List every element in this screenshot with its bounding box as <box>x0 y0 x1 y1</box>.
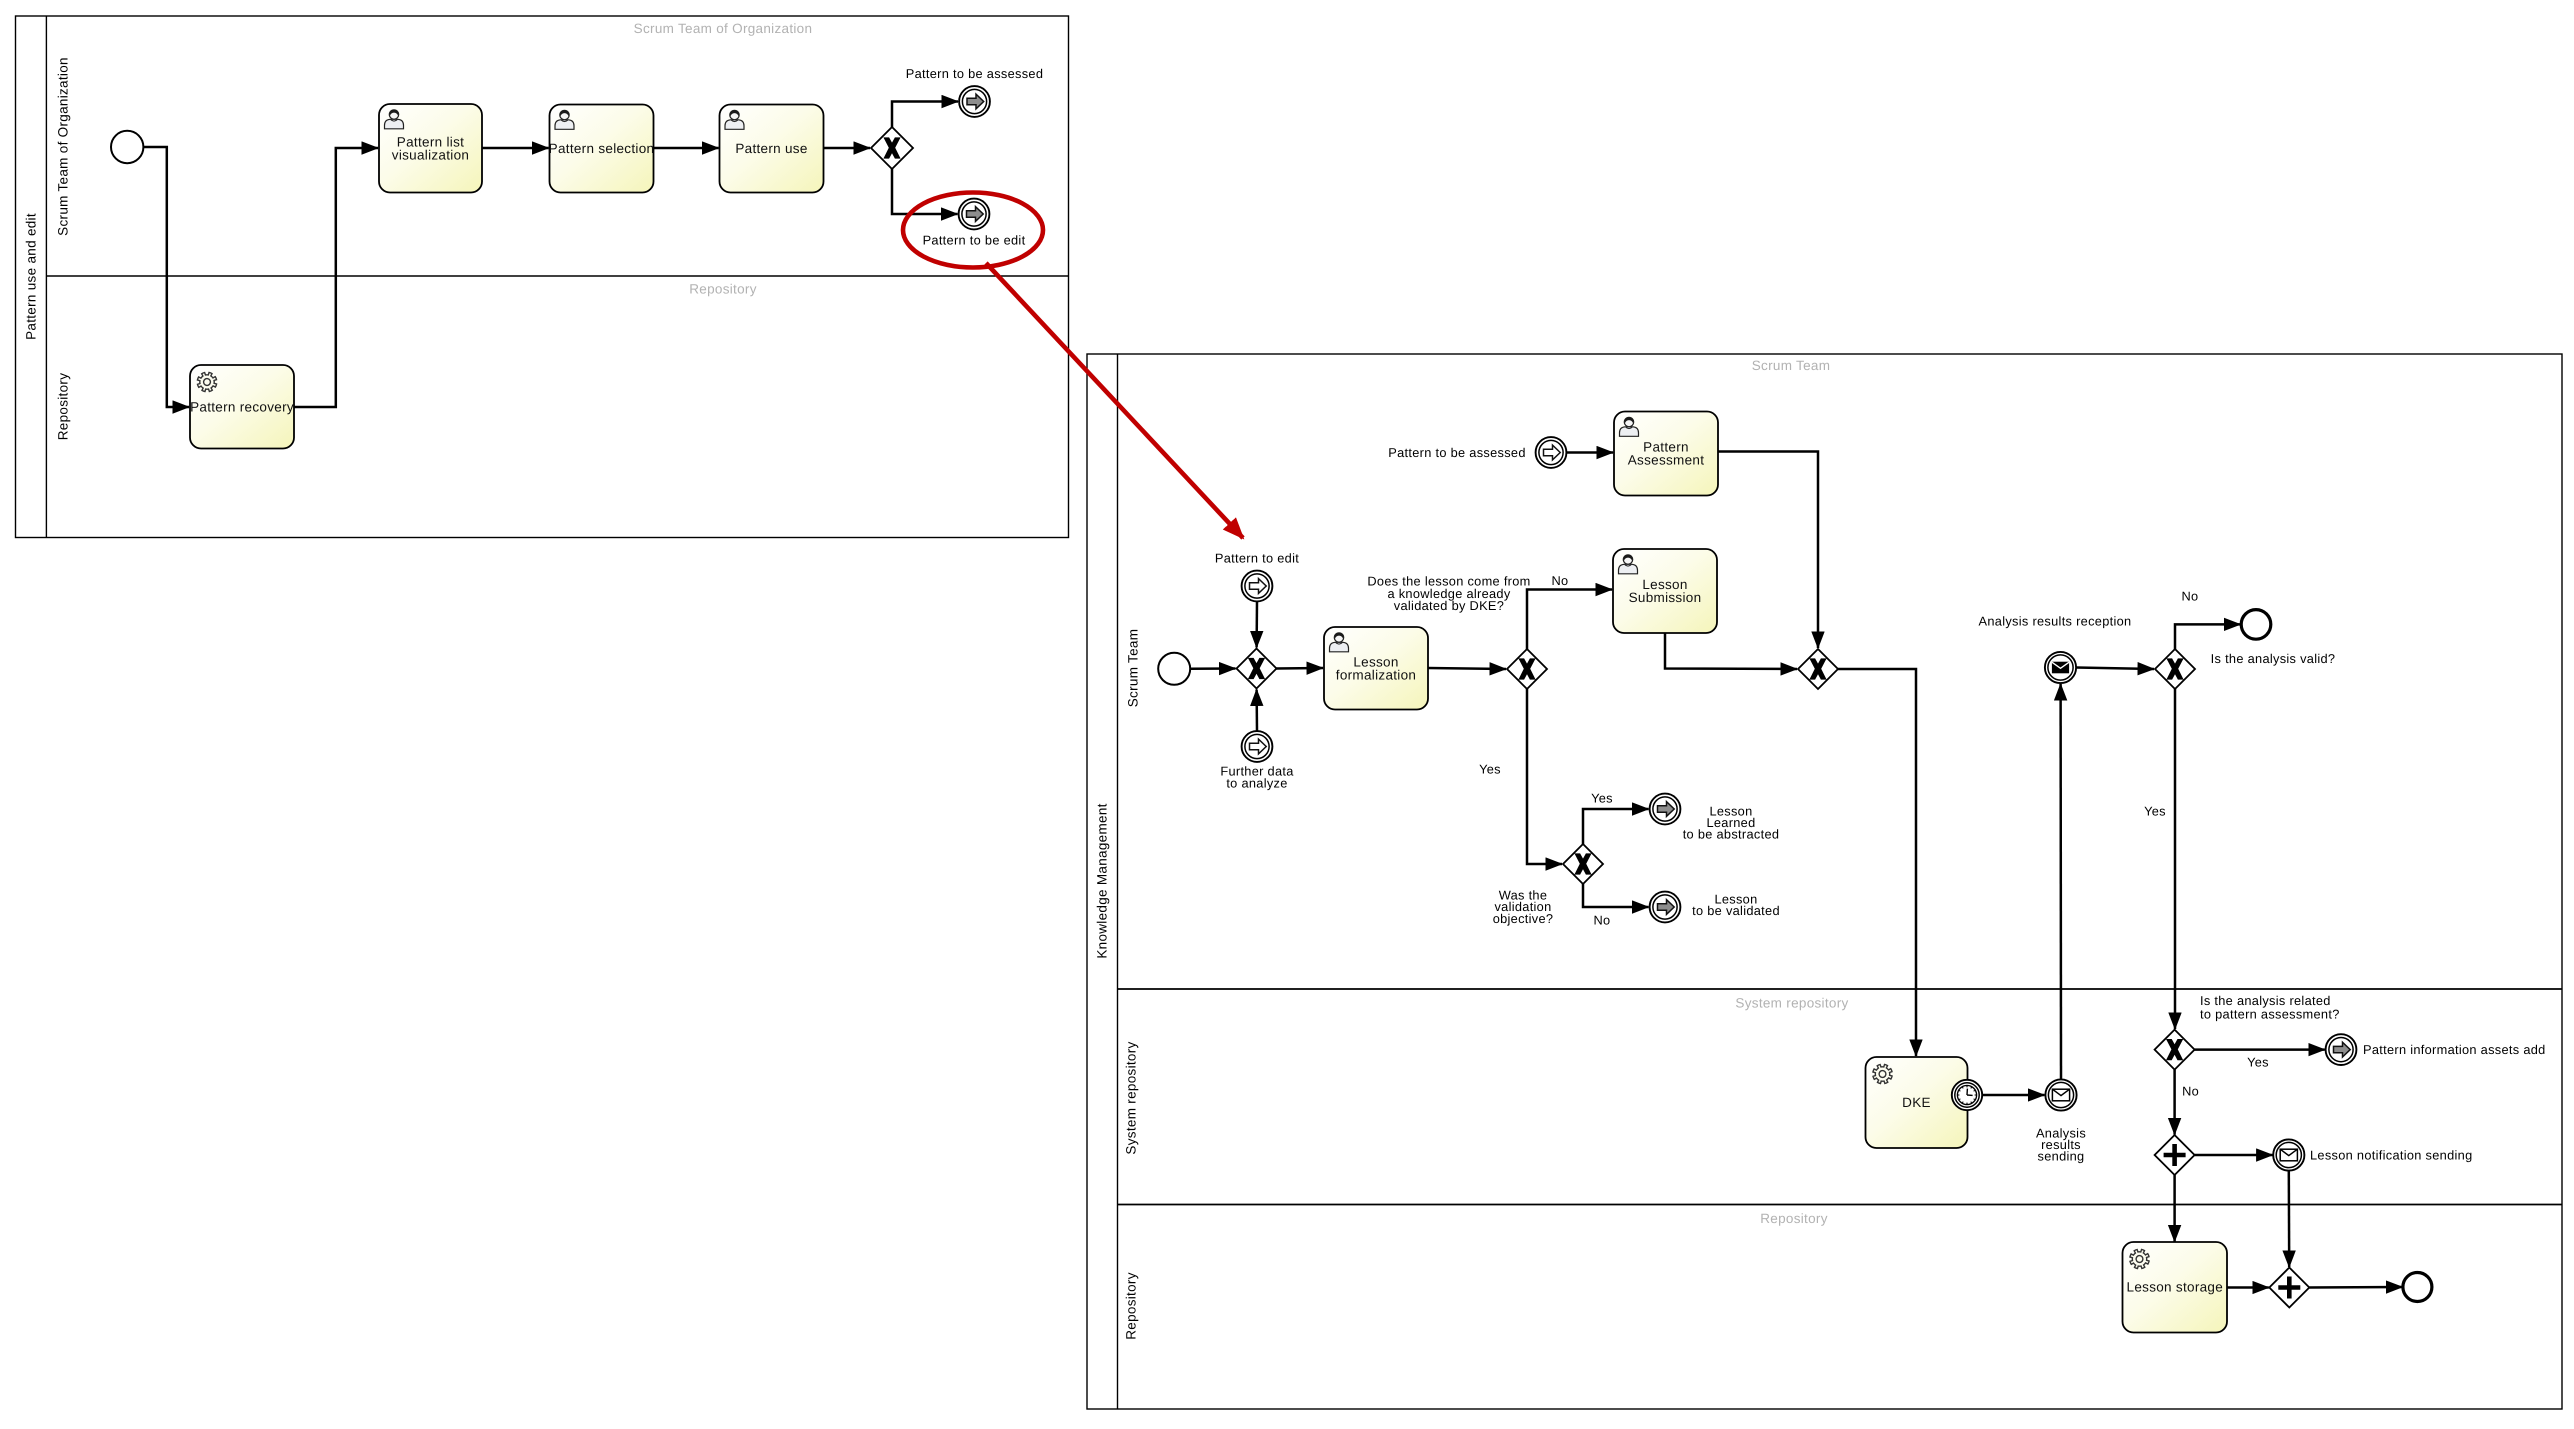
svg-text:Pattern to edit: Pattern to edit <box>1215 551 1299 566</box>
task Lesson storage <box>2123 1242 2228 1333</box>
svg-text:No: No <box>2182 1084 2199 1099</box>
wire X5 to X6 <box>2174 689 2177 1029</box>
svg-text:sending: sending <box>2038 1149 2085 1164</box>
task Lesson formalization <box>1324 627 1428 710</box>
lane label Scrum Team of Organization <box>56 57 71 236</box>
label Pattern to be assessed <box>906 66 1044 81</box>
gateway X5 <box>2155 649 2195 689</box>
svg-text:Scrum Team of Organization: Scrum Team of Organization <box>56 57 71 236</box>
parallel gateway 2 <box>2269 1268 2309 1308</box>
svg-text:Repository: Repository <box>689 282 757 297</box>
wire X3 to DKE <box>1838 669 1916 1056</box>
wire Pattern Assessment to X3 <box>1718 452 1818 649</box>
wire gateway to Pattern to be assessed <box>892 102 958 128</box>
gateway XOR pool 1 <box>871 127 913 169</box>
gateway X1 <box>1237 649 1277 689</box>
link event Lesson to be validated <box>1650 892 1681 923</box>
lane title Scrum Team of Organization <box>634 21 813 36</box>
label Pattern to edit <box>1215 551 1299 566</box>
message event Analysis results reception <box>2045 652 2076 683</box>
wire X1 to Lesson formalization <box>1276 667 1323 670</box>
label Pattern to be assessed pool 2 <box>1388 445 1526 460</box>
annotation Is the analysis valid <box>2211 651 2336 666</box>
svg-text:visualization: visualization <box>392 147 469 162</box>
svg-text:Analysis results reception: Analysis results reception <box>1979 614 2132 629</box>
label Analysis results sending <box>2036 1126 2086 1164</box>
lane label Scrum Team <box>1126 629 1141 708</box>
svg-text:Pattern information assets add: Pattern information assets add <box>2363 1042 2546 1057</box>
svg-text:Yes: Yes <box>2247 1055 2269 1070</box>
svg-text:to pattern assessment?: to pattern assessment? <box>2200 1007 2340 1022</box>
pool Pattern use and edit <box>16 16 1069 538</box>
lane title Repository pool 2 <box>1760 1211 1828 1226</box>
pool Knowledge Management <box>1087 354 2562 1409</box>
label No X5 <box>2182 589 2199 604</box>
wire start2 to X1 <box>1190 667 1235 670</box>
svg-text:Pattern use: Pattern use <box>735 141 807 156</box>
label Lesson to be validated <box>1692 892 1780 919</box>
wire X4 to Lesson Learned <box>1583 809 1649 844</box>
wire parallel gateway 1 to Lesson notification sending <box>2195 1154 2273 1157</box>
wire Further data to X1 <box>1255 690 1258 732</box>
wire X5 to end event No <box>2175 624 2240 649</box>
link event Lesson Learned to be abstracted <box>1650 794 1681 825</box>
task Pattern selection <box>549 105 655 193</box>
task Pattern list visualization <box>379 104 482 193</box>
label Yes X6 <box>2247 1055 2269 1070</box>
svg-text:Pattern selection: Pattern selection <box>549 141 655 156</box>
lane title System repository <box>1735 996 1848 1011</box>
lane title Repository <box>689 282 757 297</box>
svg-text:Lesson notification sending: Lesson notification sending <box>2310 1148 2472 1163</box>
wire parallel gateway 2 to end event <box>2309 1286 2402 1289</box>
wire Pattern to edit to X1 <box>1255 602 1258 648</box>
wire Pattern use to gateway <box>824 147 871 150</box>
svg-text:Repository: Repository <box>1760 1211 1828 1226</box>
start event pool 1 <box>111 131 143 163</box>
svg-text:Submission: Submission <box>1629 590 1702 605</box>
svg-text:Pattern to be assessed: Pattern to be assessed <box>1388 445 1526 460</box>
lane divider Scrum Team / System repository <box>1118 988 2563 990</box>
task DKE <box>1866 1057 1968 1148</box>
wire X6 to parallel gateway 1 <box>2173 1070 2176 1135</box>
svg-text:No: No <box>1552 573 1569 588</box>
wire Lesson formalization to X2 <box>1428 668 1506 669</box>
parallel gateway 1 <box>2155 1135 2195 1175</box>
pool label Knowledge Management <box>1095 803 1110 958</box>
svg-text:System repository: System repository <box>1124 1041 1139 1154</box>
link event Pattern information assets add <box>2326 1034 2357 1065</box>
gateway X4 <box>1563 844 1603 884</box>
lane label System repository <box>1124 1041 1139 1154</box>
start event pool 2 <box>1158 653 1190 685</box>
wire Lesson Submission to X3 <box>1665 633 1797 669</box>
end event final <box>2403 1273 2432 1302</box>
label No X4 <box>1594 913 1611 928</box>
wire timer to Analysis results sending <box>1982 1094 2044 1097</box>
link event Further data to analyze <box>1242 731 1273 762</box>
lane label Repository pool 2 <box>1124 1272 1139 1340</box>
svg-text:Lesson storage: Lesson storage <box>2127 1280 2224 1295</box>
wire Pattern list visualization to Pattern selection <box>482 147 549 150</box>
svg-text:Repository: Repository <box>1124 1272 1139 1340</box>
task Lesson Submission <box>1613 549 1717 633</box>
task Pattern use <box>720 105 824 193</box>
label Yes X4 <box>1591 791 1613 806</box>
timer event on DKE <box>1952 1080 1982 1110</box>
label No X2 <box>1552 573 1569 588</box>
gateway X2 <box>1507 649 1547 689</box>
lane divider Scrum Team of Organization / Repository <box>46 275 1068 277</box>
lane title Scrum Team <box>1752 358 1831 373</box>
label Lesson Learned to be abstracted <box>1683 804 1780 842</box>
svg-text:Knowledge Management: Knowledge Management <box>1095 803 1110 958</box>
link event Pattern to be assessed pool 2 <box>1536 437 1567 468</box>
svg-text:to analyze: to analyze <box>1226 776 1287 791</box>
svg-text:objective?: objective? <box>1493 911 1554 926</box>
svg-text:No: No <box>2182 589 2199 604</box>
wire Lesson notification sending to parallel gateway 2 <box>2288 1171 2291 1267</box>
red arrow to Knowledge Management pool <box>986 263 1243 538</box>
svg-text:Yes: Yes <box>1591 791 1613 806</box>
wire X6 to Pattern information assets add <box>2195 1048 2325 1051</box>
wire X2 to Lesson Submission <box>1527 590 1612 650</box>
svg-text:formalization: formalization <box>1336 667 1416 682</box>
message event Analysis results sending <box>2045 1079 2076 1110</box>
gateway X6 <box>2155 1030 2195 1070</box>
label Yes X5 <box>2144 804 2166 819</box>
label Lesson notification sending <box>2310 1148 2472 1163</box>
label No X6 <box>2182 1084 2199 1099</box>
svg-text:to be validated: to be validated <box>1692 903 1780 918</box>
svg-text:Scrum Team of Organization: Scrum Team of Organization <box>634 21 813 36</box>
svg-text:Yes: Yes <box>2144 804 2166 819</box>
svg-text:Pattern to be edit: Pattern to be edit <box>923 233 1026 248</box>
gateway X3 <box>1798 649 1838 689</box>
message event Lesson notification sending <box>2273 1139 2304 1170</box>
svg-text:DKE: DKE <box>1902 1095 1931 1110</box>
svg-text:validated by DKE?: validated by DKE? <box>1394 598 1504 613</box>
wire Pattern to be assessed to Pattern Assessment <box>1567 451 1614 454</box>
wire Pattern selection to Pattern use <box>654 147 719 150</box>
svg-text:Repository: Repository <box>56 373 71 441</box>
red ellipse highlight Pattern to be edit <box>903 193 1043 268</box>
svg-text:No: No <box>1594 913 1611 928</box>
wire Analysis results sending to reception <box>2059 684 2062 1079</box>
svg-text:Scrum Team: Scrum Team <box>1126 629 1141 708</box>
svg-text:Pattern recovery: Pattern recovery <box>190 399 294 414</box>
link event Pattern to edit <box>1242 571 1273 602</box>
label Yes X2 <box>1479 762 1501 777</box>
svg-text:Yes: Yes <box>1479 762 1501 777</box>
wire Lesson storage to parallel gateway 2 <box>2227 1286 2269 1289</box>
label Pattern to be edit <box>923 233 1026 248</box>
svg-text:to be abstracted: to be abstracted <box>1683 827 1780 842</box>
wire reception to X5 <box>2076 668 2154 670</box>
annotation Does the lesson <box>1367 574 1530 614</box>
svg-text:Scrum Team: Scrum Team <box>1752 358 1831 373</box>
wire X4 to Lesson to be validated <box>1583 884 1649 907</box>
svg-text:Pattern to be assessed: Pattern to be assessed <box>906 66 1044 81</box>
wire gateway to Pattern to be edit <box>892 169 958 214</box>
svg-text:Pattern use and edit: Pattern use and edit <box>24 213 39 340</box>
wire X2 to X4 <box>1527 689 1562 864</box>
label Further data to analyze <box>1220 764 1294 791</box>
pool label Pattern use and edit <box>24 213 39 340</box>
label Pattern information assets add <box>2363 1042 2546 1057</box>
svg-text:Assessment: Assessment <box>1628 453 1705 468</box>
lane divider System repository / Repository <box>1118 1204 2563 1206</box>
task Pattern Assessment <box>1614 412 1718 496</box>
wire start to Pattern recovery <box>143 147 189 407</box>
svg-text:Is the analysis valid?: Is the analysis valid? <box>2211 651 2336 666</box>
annotation Was the validation objective <box>1493 888 1554 926</box>
svg-text:System repository: System repository <box>1735 996 1848 1011</box>
wire parallel gateway 1 to Lesson storage <box>2173 1175 2176 1242</box>
label Analysis results reception <box>1979 614 2132 629</box>
end event Is analysis valid No <box>2241 610 2271 640</box>
wire Pattern recovery to Pattern list visualization <box>294 148 378 407</box>
link event Pattern to be assessed <box>959 86 990 117</box>
lane label Repository <box>56 373 71 441</box>
link event Pattern to be edit <box>959 199 990 230</box>
annotation Is the analysis related <box>2200 993 2340 1021</box>
task Pattern recovery <box>190 365 294 449</box>
